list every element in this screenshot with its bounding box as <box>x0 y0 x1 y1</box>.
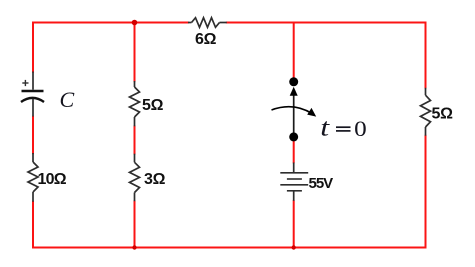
battery 55V <box>280 163 308 201</box>
wire 3ohm to bottom <box>134 201 136 248</box>
svg-text:5Ω: 5Ω <box>142 97 164 114</box>
svg-text:6Ω: 6Ω <box>195 31 217 48</box>
svg-text:10Ω: 10Ω <box>38 171 67 188</box>
node junction dot bottom right <box>292 245 296 249</box>
wire bottom rail <box>33 135 426 247</box>
wire top left segment <box>33 23 189 73</box>
wire switch to battery <box>293 141 295 163</box>
svg-text:5Ω: 5Ω <box>432 106 454 123</box>
label t = 0 <box>320 114 367 142</box>
wire top to switch <box>293 23 295 79</box>
resistor 10ohm <box>28 153 38 202</box>
resistor 3ohm <box>130 154 140 202</box>
svg-text:55V: 55V <box>309 175 334 192</box>
node junction dot bottom left <box>132 245 136 249</box>
wire cap to 10ohm <box>32 117 34 154</box>
node A junction dot top <box>132 20 138 26</box>
switch motion arrow <box>272 107 317 117</box>
svg-text:t: t <box>320 114 330 142</box>
svg-text:3Ω: 3Ω <box>144 171 166 188</box>
svg-text:C: C <box>60 87 75 112</box>
capacitor C <box>21 72 44 117</box>
resistor 5ohm right <box>421 88 431 136</box>
resistor 5ohm branch2 <box>130 81 140 126</box>
wire 5ohm to 3ohm <box>134 126 136 154</box>
wire node A down to 5ohm <box>134 23 136 82</box>
wire battery to bottom <box>293 201 295 248</box>
wire top right segment <box>227 23 426 89</box>
svg-text:0: 0 <box>354 117 367 141</box>
resistor 6ohm <box>188 18 227 28</box>
switch blade <box>289 77 298 141</box>
